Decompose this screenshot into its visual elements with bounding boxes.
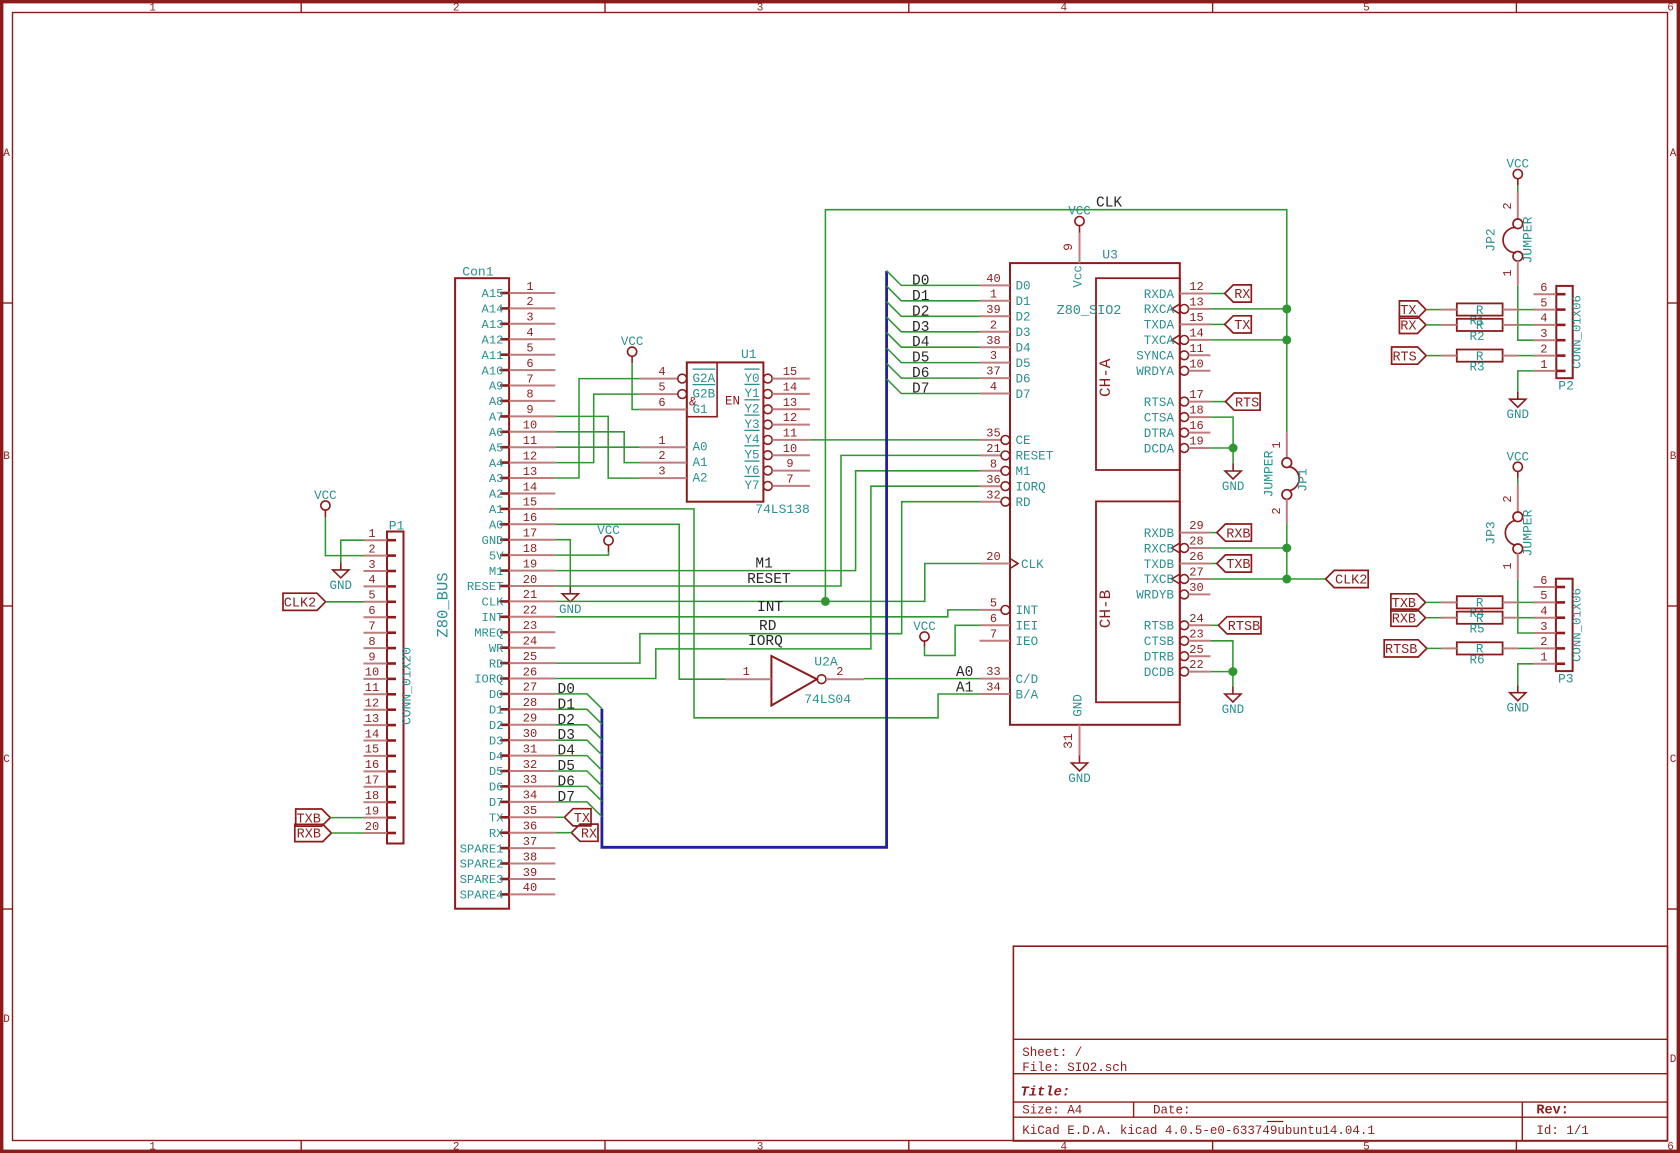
svg-text:DTRA: DTRA [1144, 427, 1175, 441]
svg-text:Sheet: /: Sheet: / [1022, 1046, 1082, 1060]
svg-text:D1: D1 [489, 704, 504, 718]
global label TX at Con1 pin35 [564, 809, 591, 827]
svg-text:JP3: JP3 [1484, 521, 1499, 544]
wire D7 from Con1 to bus [555, 802, 602, 817]
svg-text:D7: D7 [1016, 388, 1031, 402]
svg-text:B: B [3, 451, 10, 463]
svg-text:R2: R2 [1469, 330, 1484, 344]
svg-text:4: 4 [526, 326, 533, 340]
svg-text:Y1: Y1 [744, 387, 759, 401]
wire D4 from Con1 to bus [555, 756, 602, 771]
svg-text:74LS138: 74LS138 [755, 502, 810, 517]
svg-text:2: 2 [1270, 507, 1284, 514]
svg-text:7: 7 [990, 627, 997, 641]
svg-text:5: 5 [526, 342, 533, 356]
svg-text:RXDA: RXDA [1144, 288, 1175, 302]
junction DCDB [1228, 667, 1237, 676]
wire VCC to IEI [925, 625, 980, 655]
wire D4 from bus to U3 [887, 333, 980, 348]
svg-text:10: 10 [1189, 357, 1203, 371]
svg-text:14: 14 [1189, 327, 1203, 341]
svg-text:D3: D3 [489, 734, 504, 748]
svg-text:RTS: RTS [1392, 350, 1416, 365]
svg-text:A15: A15 [482, 287, 504, 301]
svg-text:File: SIO2.sch: File: SIO2.sch [1022, 1061, 1127, 1075]
svg-text:Y4: Y4 [744, 433, 759, 447]
power VCC at U3 pin9 [1068, 205, 1091, 233]
svg-text:RD: RD [1016, 496, 1031, 510]
svg-text:CE: CE [1016, 434, 1031, 448]
svg-text:39: 39 [523, 866, 537, 880]
wire RESET [555, 455, 979, 586]
junction RXCB [1282, 544, 1291, 553]
svg-text:G1: G1 [693, 403, 708, 417]
svg-text:24: 24 [523, 635, 537, 649]
svg-text:U3: U3 [1102, 248, 1118, 263]
svg-text:A0: A0 [693, 441, 708, 455]
svg-text:GND: GND [1222, 703, 1245, 717]
svg-text:29: 29 [1189, 519, 1203, 533]
wire D7 from bus to U3 [887, 379, 980, 394]
svg-text:A8: A8 [489, 395, 504, 409]
svg-text:D1: D1 [1016, 295, 1031, 309]
svg-text:GND: GND [1068, 772, 1091, 786]
svg-text:6: 6 [1667, 1142, 1674, 1153]
svg-text:CTSA: CTSA [1144, 411, 1175, 425]
global label CLK2 at P1 pin5 [283, 593, 326, 611]
svg-text:38: 38 [523, 850, 537, 864]
wire A4 to U1 G2B [555, 394, 639, 463]
svg-text:Vcc: Vcc [1072, 265, 1086, 288]
decoder U1 74LS138 [640, 347, 810, 517]
wire CLK from Con1 to U3 [555, 564, 979, 602]
wire TXCA to jumper riser [1210, 339, 1286, 341]
svg-text:D4: D4 [1016, 342, 1031, 356]
wire A5 to U1 A0 [555, 446, 639, 448]
svg-text:RX: RX [1234, 288, 1250, 303]
global label RXB at P1 pin20 [295, 824, 332, 842]
svg-text:DCDA: DCDA [1144, 442, 1175, 456]
global label RX at R2 [1399, 316, 1426, 334]
jumper JP1 [1262, 432, 1311, 523]
svg-text:Size: A4: Size: A4 [1022, 1104, 1082, 1118]
svg-text:14: 14 [523, 480, 537, 494]
wire CTSB to DCDB [1210, 641, 1233, 687]
wire RX to R2 [1426, 324, 1441, 326]
wire R5 to P3 pin4 [1518, 617, 1533, 619]
svg-text:7: 7 [368, 620, 375, 634]
svg-text:D6: D6 [1016, 372, 1031, 386]
svg-text:27: 27 [1189, 566, 1203, 580]
svg-text:B: B [1670, 451, 1677, 463]
svg-text:RESET: RESET [1016, 450, 1054, 464]
junction TXCA [1282, 335, 1291, 344]
svg-text:5: 5 [1540, 296, 1547, 310]
svg-text:30: 30 [1189, 581, 1203, 595]
svg-text:IORQ: IORQ [1016, 481, 1046, 495]
svg-text:A11: A11 [482, 349, 504, 363]
svg-text:39: 39 [986, 303, 1000, 317]
svg-text:23: 23 [1189, 627, 1203, 641]
global label RTSB at R6 [1384, 640, 1427, 658]
wire RTSB [1210, 624, 1218, 626]
svg-text:RXDB: RXDB [1144, 527, 1175, 541]
svg-text:IEI: IEI [1016, 620, 1039, 634]
wire RTSA [1210, 401, 1225, 403]
svg-text:A10: A10 [482, 364, 504, 378]
svg-text:RXCB: RXCB [1144, 542, 1175, 556]
wire D5 from Con1 to bus [555, 771, 602, 786]
svg-text:Id: 1/1: Id: 1/1 [1536, 1124, 1589, 1138]
svg-text:RESET: RESET [467, 580, 504, 594]
svg-text:CONN_01X06: CONN_01X06 [1571, 295, 1585, 369]
svg-text:8: 8 [990, 457, 997, 471]
svg-text:38: 38 [986, 334, 1000, 348]
wire TXCB to CLK2 [1210, 578, 1325, 580]
wire D2 from bus to U3 [887, 302, 980, 317]
svg-text:RTSB: RTSB [1228, 620, 1260, 635]
svg-text:SYNCA: SYNCA [1136, 350, 1174, 364]
wire Con1 A0 to U2A input [555, 524, 725, 679]
power VCC at JP3 [1507, 450, 1530, 478]
svg-text:6: 6 [1540, 574, 1547, 588]
svg-text:D2: D2 [1016, 311, 1031, 325]
svg-text:A0: A0 [489, 519, 504, 533]
svg-text:24: 24 [1189, 612, 1203, 626]
svg-text:3: 3 [368, 558, 375, 572]
svg-text:CONN_01X06: CONN_01X06 [1571, 588, 1585, 662]
svg-text:5: 5 [990, 597, 997, 611]
svg-text:C: C [3, 754, 10, 766]
svg-text:VCC: VCC [1507, 158, 1530, 172]
svg-text:16: 16 [365, 758, 379, 772]
svg-text:9: 9 [526, 403, 533, 417]
svg-text:28: 28 [523, 696, 537, 710]
svg-text:Z80_BUS: Z80_BUS [435, 572, 453, 637]
resistor R4 [1441, 596, 1518, 621]
svg-text:CH-B: CH-B [1097, 590, 1115, 628]
svg-text:RTSA: RTSA [1144, 396, 1175, 410]
global label TXB at P1 pin19 [296, 809, 331, 827]
svg-text:2: 2 [658, 449, 665, 463]
svg-text:IORQ: IORQ [748, 634, 783, 650]
svg-text:12: 12 [1189, 280, 1203, 294]
wire DCDA [1210, 447, 1233, 449]
wire TX to R1 [1426, 309, 1441, 311]
svg-text:32: 32 [986, 488, 1000, 502]
wire TXDB [1210, 563, 1216, 565]
svg-text:RTSB: RTSB [1385, 643, 1417, 658]
wire P2 pin1 to GND [1518, 371, 1534, 392]
svg-text:3: 3 [990, 349, 997, 363]
svg-text:D5: D5 [558, 759, 575, 775]
sio U3 Z80_SIO2 [980, 233, 1211, 756]
bus Z80 data D0-D7 [602, 271, 887, 847]
svg-text:1: 1 [1501, 269, 1515, 276]
global label RTS at R3 [1392, 347, 1427, 365]
svg-text:6: 6 [526, 357, 533, 371]
connector P1 CONN_01X20 [364, 519, 415, 844]
svg-text:RD: RD [759, 619, 776, 635]
svg-text:5: 5 [1363, 3, 1370, 15]
wire D0 from Con1 to bus [555, 694, 602, 709]
wire VCC to U1 G1 [632, 363, 640, 409]
wire IORQ [555, 486, 979, 678]
global label TX at TXDA [1225, 316, 1252, 334]
svg-text:D4: D4 [912, 335, 929, 351]
svg-text:RX: RX [581, 827, 597, 842]
svg-text:Rev:: Rev: [1536, 1104, 1568, 1119]
svg-text:INT: INT [482, 611, 504, 625]
svg-text:40: 40 [523, 881, 537, 895]
svg-text:A9: A9 [489, 380, 504, 394]
svg-text:6: 6 [990, 612, 997, 626]
power VCC at P1 [314, 489, 337, 517]
svg-text:RXB: RXB [1226, 527, 1250, 542]
svg-text:Title:: Title: [1021, 1085, 1071, 1101]
svg-text:34: 34 [523, 789, 537, 803]
global label RTSB at RTSB pin [1218, 617, 1261, 635]
wire Con1 5V to VCC [555, 552, 608, 555]
svg-text:25: 25 [1189, 643, 1203, 657]
svg-text:17: 17 [523, 527, 537, 541]
svg-text:CLK: CLK [1021, 558, 1044, 572]
svg-text:30: 30 [523, 727, 537, 741]
svg-text:GND: GND [1507, 408, 1530, 422]
svg-text:16: 16 [1189, 419, 1203, 433]
svg-text:CLK2: CLK2 [284, 597, 316, 612]
svg-text:D: D [3, 1014, 10, 1026]
svg-text:Con1: Con1 [462, 265, 493, 280]
svg-text:18: 18 [1189, 404, 1203, 418]
global label RTS at RTSA [1226, 393, 1261, 411]
svg-text:3: 3 [1540, 620, 1547, 634]
svg-text:U2A: U2A [814, 655, 838, 670]
svg-text:C: C [1670, 754, 1677, 766]
svg-text:MREQ: MREQ [474, 626, 503, 640]
svg-text:D6: D6 [912, 366, 929, 382]
wire A7 to U1 A2 [555, 416, 639, 478]
global label RX at RXDA [1225, 285, 1252, 303]
ground at P2 [1507, 392, 1530, 422]
wire R4 to P3 pin5 [1518, 601, 1533, 603]
svg-text:JUMPER: JUMPER [1521, 216, 1536, 263]
wire RD [555, 502, 979, 663]
svg-text:2: 2 [1501, 202, 1515, 209]
svg-text:7: 7 [786, 473, 793, 487]
svg-text:CLK: CLK [1096, 196, 1122, 212]
svg-text:RTSB: RTSB [1144, 620, 1175, 634]
wire RX Con1 [555, 832, 571, 834]
svg-text:17: 17 [365, 774, 379, 788]
svg-text:6: 6 [368, 604, 375, 618]
svg-text:JP1: JP1 [1296, 468, 1311, 492]
svg-text:37: 37 [523, 835, 537, 849]
svg-text:1: 1 [1540, 651, 1547, 665]
svg-text:D2: D2 [489, 719, 504, 733]
svg-text:TX: TX [1234, 319, 1250, 334]
svg-text:D0: D0 [489, 688, 504, 702]
svg-text:TX: TX [489, 812, 504, 826]
svg-text:R6: R6 [1469, 653, 1484, 667]
svg-text:TXB: TXB [1226, 558, 1250, 573]
svg-text:D7: D7 [912, 382, 929, 398]
svg-text:22: 22 [1189, 658, 1203, 672]
svg-text:18: 18 [523, 542, 537, 556]
svg-text:A1: A1 [693, 456, 708, 470]
svg-text:2: 2 [1540, 635, 1547, 649]
svg-text:1: 1 [368, 527, 375, 541]
svg-text:14: 14 [365, 727, 379, 741]
svg-text:P2: P2 [1558, 379, 1574, 394]
svg-text:CLK: CLK [482, 596, 505, 610]
wire D3 from bus to U3 [887, 317, 980, 332]
svg-text:A1: A1 [956, 680, 973, 696]
wire U1 Y4 to U3 CE [810, 439, 980, 441]
global label TXB at TXDB [1217, 555, 1252, 573]
inverter U2A 74LS04 [726, 655, 864, 707]
svg-text:D3: D3 [1016, 326, 1031, 340]
svg-text:A0: A0 [956, 665, 973, 681]
svg-text:10: 10 [365, 666, 379, 680]
wire VCC to P1 pin2 [325, 517, 363, 556]
svg-text:D1: D1 [912, 289, 929, 305]
svg-text:RX: RX [489, 827, 504, 841]
svg-text:3: 3 [1540, 327, 1547, 341]
wire D1 from bus to U3 [887, 286, 980, 301]
svg-text:D7: D7 [489, 796, 504, 810]
wire Con1 A1 to U3 B/A [555, 509, 979, 718]
svg-text:7: 7 [526, 372, 533, 386]
svg-text:D: D [1670, 1054, 1677, 1066]
ground at DCDB [1222, 687, 1245, 718]
svg-text:U1: U1 [741, 347, 757, 362]
global label RX at Con1 pin36 [571, 824, 598, 842]
svg-text:14: 14 [783, 381, 797, 395]
svg-text:37: 37 [986, 365, 1000, 379]
svg-text:SPARE3: SPARE3 [460, 873, 504, 887]
svg-text:23: 23 [523, 619, 537, 633]
svg-text:D1: D1 [558, 697, 575, 713]
svg-text:1: 1 [526, 280, 533, 294]
svg-text:VCC: VCC [913, 620, 936, 634]
wire D5 from bus to U3 [887, 348, 980, 363]
wire D1 from Con1 to bus [555, 709, 602, 724]
svg-text:3: 3 [757, 3, 764, 15]
svg-text:35: 35 [523, 804, 537, 818]
global label RXB at RXDB [1217, 524, 1252, 542]
svg-text:11: 11 [365, 681, 379, 695]
wire JP2 pin1 to P2 pin3 [1518, 286, 1534, 341]
svg-text:D4: D4 [489, 750, 504, 764]
svg-text:5: 5 [658, 381, 665, 395]
svg-text:GND: GND [1507, 702, 1530, 716]
svg-text:19: 19 [365, 804, 379, 818]
svg-text:GND: GND [1222, 480, 1245, 494]
svg-text:11: 11 [783, 427, 797, 441]
svg-text:20: 20 [523, 573, 537, 587]
svg-text:19: 19 [523, 557, 537, 571]
resistor R3 [1441, 350, 1518, 375]
wire A6 to U1 A1 [555, 432, 639, 463]
svg-text:26: 26 [1189, 550, 1203, 564]
wire RXDA [1210, 293, 1224, 295]
svg-text:RTS: RTS [1235, 396, 1259, 411]
svg-text:12: 12 [783, 411, 797, 425]
svg-text:VCC: VCC [314, 489, 337, 503]
svg-text:5V: 5V [489, 549, 504, 563]
svg-text:2: 2 [1501, 495, 1515, 502]
svg-text:A6: A6 [489, 426, 504, 440]
svg-text:A5: A5 [489, 441, 504, 455]
svg-text:74LS04: 74LS04 [804, 692, 851, 707]
svg-text:GND: GND [330, 579, 353, 593]
svg-text:10: 10 [783, 442, 797, 456]
svg-text:15: 15 [783, 365, 797, 379]
svg-text:1: 1 [149, 1142, 156, 1153]
svg-text:RXCA: RXCA [1144, 303, 1175, 317]
svg-text:5: 5 [1363, 1142, 1370, 1153]
svg-text:4: 4 [990, 380, 997, 394]
svg-text:2: 2 [526, 295, 533, 309]
svg-text:C/D: C/D [1016, 673, 1039, 687]
svg-text:36: 36 [986, 473, 1000, 487]
wire VCC to JP2 [1517, 186, 1519, 192]
svg-text:6: 6 [1540, 281, 1547, 295]
svg-text:A1: A1 [489, 503, 504, 517]
wire INT [555, 610, 979, 617]
wire CLK2 to P1 pin5 [326, 601, 364, 603]
svg-text:JUMPER: JUMPER [1521, 509, 1536, 556]
svg-text:5: 5 [368, 589, 375, 603]
svg-text:A13: A13 [482, 318, 504, 332]
svg-text:1: 1 [1540, 358, 1547, 372]
svg-text:EN: EN [725, 395, 740, 409]
junction TXCB [1282, 575, 1291, 584]
global label RXB at R5 [1391, 609, 1426, 627]
svg-text:P3: P3 [1558, 671, 1574, 686]
wire RXDB [1210, 532, 1216, 534]
svg-text:4: 4 [1060, 3, 1067, 15]
svg-text:RXB: RXB [1392, 612, 1416, 627]
svg-text:RESET: RESET [747, 572, 791, 588]
jumper JP3 [1484, 484, 1536, 579]
svg-text:4: 4 [368, 573, 375, 587]
ground at DCDA [1222, 464, 1245, 495]
svg-text:A2: A2 [489, 488, 504, 502]
svg-text:29: 29 [523, 712, 537, 726]
svg-text:SPARE4: SPARE4 [460, 889, 504, 903]
svg-text:1: 1 [1270, 441, 1284, 448]
svg-text:21: 21 [986, 442, 1000, 456]
wire P1 pin1 to GND [341, 540, 364, 562]
svg-text:R3: R3 [1469, 361, 1484, 375]
svg-text:9: 9 [368, 650, 375, 664]
svg-text:15: 15 [365, 743, 379, 757]
svg-text:1: 1 [743, 665, 750, 679]
ground at Con1 [559, 586, 582, 617]
wire D3 from Con1 to bus [555, 740, 602, 755]
wire RXB to R5 [1426, 617, 1442, 619]
svg-text:A4: A4 [489, 457, 504, 471]
svg-text:18: 18 [365, 789, 379, 803]
svg-text:TXCA: TXCA [1144, 334, 1175, 348]
svg-text:6: 6 [1667, 3, 1674, 15]
svg-text:SPARE2: SPARE2 [460, 858, 504, 872]
svg-text:A3: A3 [489, 472, 504, 486]
wire TX Con1 [555, 816, 564, 818]
global label TXB at R4 [1391, 594, 1426, 612]
